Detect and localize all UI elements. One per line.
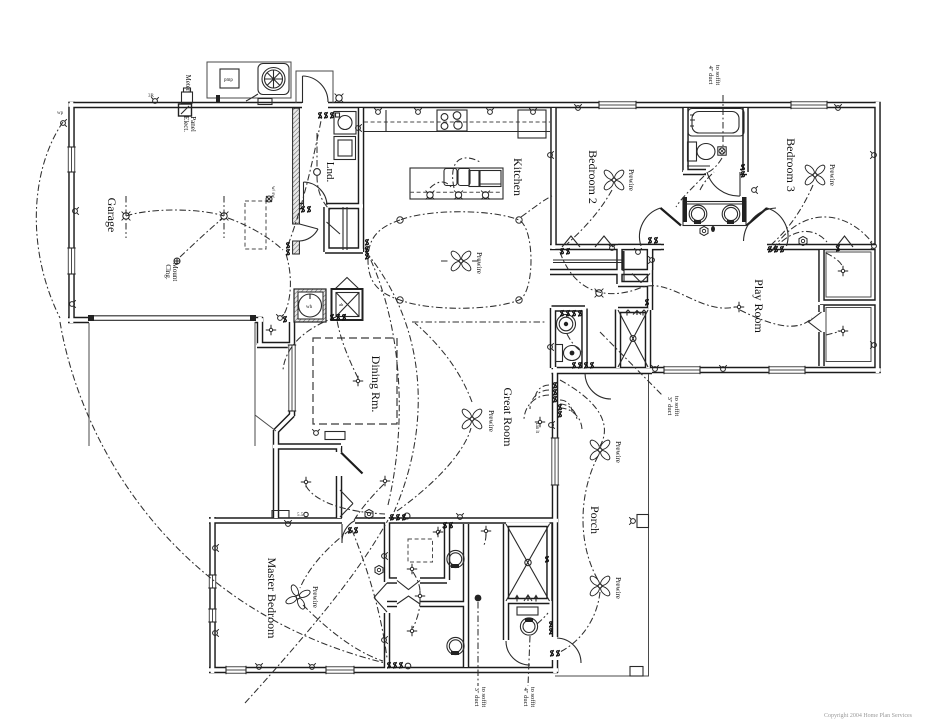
lower cell top right — [420, 601, 466, 608]
svg-text:Play Room: Play Room — [752, 279, 766, 333]
wire entry light to master sw — [353, 484, 384, 522]
laundry bottom right of door — [326, 203, 363, 210]
bedroom3 bottom wall — [767, 244, 820, 251]
wire garage to door switch — [228, 218, 283, 250]
svg-text:Prewire: Prewire — [828, 164, 836, 186]
playroom bottom wall — [553, 367, 881, 374]
porch/great wall upper — [552, 367, 559, 438]
condenser fan — [258, 64, 289, 95]
wire hall to playroom — [560, 252, 735, 308]
switches garage door — [286, 242, 289, 249]
washer — [334, 112, 356, 135]
recept right wall 2 — [870, 242, 876, 250]
light closet1 — [838, 266, 848, 276]
switches bedroom3 door — [768, 246, 771, 253]
wire entry to fan — [397, 428, 471, 511]
master top wall (left of door) — [209, 517, 342, 524]
wire bath2 up — [700, 172, 714, 190]
svg-text:w/ sw: w/ sw — [270, 186, 275, 198]
wire slider arcs — [524, 385, 549, 420]
foyer left wall — [273, 430, 280, 518]
wire foyer light — [306, 486, 385, 514]
linen bottom wall — [618, 281, 652, 288]
master/bath wall upper — [384, 517, 391, 582]
recept garage door — [276, 314, 284, 320]
hall door left jamb — [661, 208, 682, 226]
can light k2 — [516, 217, 522, 223]
garage hatched wall — [293, 108, 300, 224]
wire bedroom3 arc small — [772, 231, 827, 251]
closet2 door — [809, 312, 822, 332]
closet right stub — [647, 247, 654, 270]
shower door notch — [397, 581, 420, 590]
shower cell bottom right — [420, 577, 447, 584]
svg-text:Copyright 2004 Home Plan Servi: Copyright 2004 Home Plan Services — [824, 713, 913, 719]
wire powder arc — [567, 334, 584, 353]
dining area dashed outline — [313, 338, 397, 424]
switches kitchen west — [365, 239, 368, 246]
closet1 top wall — [820, 244, 877, 251]
porch outline — [555, 374, 649, 676]
wire island stars — [430, 158, 480, 188]
shower cell bottom stub — [387, 577, 397, 584]
svg-text:wp: wp — [57, 111, 64, 116]
recept bed2 closet — [634, 248, 642, 254]
svg-text:5.5: 5.5 — [297, 513, 304, 518]
can light k3 — [397, 297, 403, 303]
xcloset left wall — [615, 310, 622, 369]
wire master hall leader — [477, 602, 479, 686]
recept master bottom 1 — [255, 663, 263, 669]
wire exterior left lower — [60, 322, 385, 663]
xbox top wall (under main) — [506, 521, 550, 528]
hall mark — [711, 226, 715, 232]
garage light 1 — [122, 212, 131, 221]
svg-text:Master Bedroom: Master Bedroom — [265, 558, 279, 640]
switches bath2 — [741, 164, 744, 171]
wire master fan to bottom — [303, 605, 383, 661]
ceiling fan bedroom3 — [804, 164, 827, 187]
garage light 2 — [220, 212, 229, 221]
hall door right jamb — [747, 208, 768, 226]
step down right of garage door — [257, 317, 264, 345]
nook sink left — [689, 205, 707, 223]
light mbath lower — [407, 626, 417, 636]
svg-text:3" duct: 3" duct — [666, 397, 673, 416]
switches hall west — [560, 248, 563, 255]
smoke hall — [700, 226, 708, 235]
wire playroom right sweep — [740, 310, 812, 326]
recept right wall 1 — [870, 151, 876, 159]
lower cell top stub — [387, 601, 397, 608]
master bottom wall — [209, 667, 558, 674]
switches hall top — [560, 310, 563, 317]
linen xbox — [618, 310, 648, 367]
svg-text:Prewire: Prewire — [614, 577, 622, 599]
furnace — [335, 278, 359, 290]
kitchen/bedroom2 wall — [550, 108, 557, 249]
switches hallbath — [549, 621, 552, 628]
bath2 toilet — [688, 142, 697, 161]
powder right wall — [581, 309, 588, 369]
light mbath hall — [415, 591, 425, 601]
svg-text:Prewire: Prewire — [627, 169, 635, 191]
master sink2 — [447, 637, 464, 654]
porch door hallbath — [557, 638, 581, 663]
svg-text:Prewire: Prewire — [614, 441, 622, 463]
recept master top — [284, 520, 292, 526]
recept playroom bottom 2 — [651, 365, 659, 371]
hvac pad — [207, 62, 291, 98]
wire porch s2 — [583, 456, 598, 580]
switches back door — [318, 112, 321, 119]
master/bath wall lower — [384, 613, 391, 670]
dining west wall lower stub — [289, 409, 296, 416]
svg-text:wh: wh — [306, 305, 313, 310]
bedroom2 closet doors — [562, 236, 613, 247]
garage entry door — [300, 224, 319, 241]
smoke entry — [365, 509, 373, 518]
light playroom — [734, 302, 744, 312]
switches porch top — [558, 404, 561, 411]
svg-text:Meter: Meter — [184, 75, 192, 92]
svg-text:Dining Rm.: Dining Rm. — [369, 356, 383, 413]
recept powder — [548, 343, 554, 351]
powder sink — [557, 315, 576, 334]
recept greatroom bottom — [456, 513, 464, 519]
wire porch s3 — [560, 592, 600, 652]
switches master door — [348, 527, 351, 534]
bath2 left wall — [682, 108, 689, 172]
wire clng mount — [180, 219, 222, 257]
recept dining — [312, 429, 320, 435]
wire dining light — [337, 320, 358, 378]
wire garage light leg1 — [125, 196, 127, 238]
svg-text:ah: ah — [339, 302, 344, 307]
svg-text:Lnd.: Lnd. — [324, 162, 336, 183]
electrical panel — [179, 104, 192, 116]
svg-text:3" duct: 3" duct — [473, 688, 480, 707]
wire exterior left upper — [36, 122, 63, 318]
hall light — [595, 289, 604, 298]
svg-text:to soffit: to soffit — [714, 65, 721, 85]
island light 3 — [481, 191, 490, 200]
closet1 left wall — [818, 250, 825, 302]
back door — [302, 76, 304, 103]
wire garage switch to backdoor — [288, 116, 322, 245]
wire exterior bottom entry — [245, 520, 388, 703]
wire duct leader top — [722, 95, 724, 146]
xbox east wall — [546, 524, 553, 601]
light shower — [407, 564, 417, 574]
recept kitchen c3 — [486, 108, 494, 114]
top wall right of back door — [328, 102, 878, 109]
svg-text:Bedroom 2: Bedroom 2 — [586, 150, 600, 204]
bath2 vanity — [687, 165, 710, 167]
recept mbath wall1 — [382, 552, 388, 560]
ceiling mount outlet — [174, 258, 180, 264]
master left wall — [209, 517, 216, 673]
powder niche door — [585, 374, 611, 400]
linen left wall — [616, 247, 623, 284]
recept bed2 top — [574, 104, 582, 110]
master door — [342, 521, 355, 544]
foyer top wall — [273, 443, 341, 450]
wire master fan — [300, 530, 350, 588]
wire hallbath toilet — [537, 613, 548, 624]
switches mbath top — [443, 522, 446, 529]
recept top wall 1 — [151, 97, 159, 103]
powder toilet — [556, 345, 563, 362]
svg-text:4" duct: 4" duct — [707, 66, 714, 85]
top wall left of back door — [69, 102, 303, 109]
wire closet1 light — [826, 253, 843, 268]
svg-text:Prewire: Prewire — [487, 410, 495, 432]
master bath door — [374, 583, 387, 612]
heat pump unit — [220, 69, 239, 88]
cooktop — [437, 110, 467, 131]
svg-text:Porch: Porch — [588, 506, 602, 534]
wire dining from switch — [283, 317, 336, 370]
bath2 bottom left of door — [683, 169, 706, 176]
recept wp left — [61, 119, 67, 127]
kitchen counter — [364, 131, 550, 133]
vanity nook — [683, 202, 746, 226]
back stoop — [296, 71, 333, 103]
ceiling fan great room — [461, 408, 484, 431]
light foyer — [301, 477, 311, 487]
bath2 exhaust fan — [718, 147, 726, 155]
svg-text:fan lt: fan lt — [534, 423, 539, 434]
master top notch — [272, 511, 289, 519]
xcloset top — [618, 307, 648, 314]
switch closet1 — [836, 245, 839, 252]
recept hall wall — [648, 256, 654, 264]
garage bottom right jamb — [255, 317, 263, 324]
closet2 left upper stub — [818, 305, 825, 312]
closet divider wall — [820, 299, 877, 306]
shower cell east wall — [444, 524, 451, 580]
disconnect — [258, 99, 272, 105]
svg-text:Elect.: Elect. — [182, 116, 190, 132]
right wall — [874, 102, 881, 373]
foyer right wall top stub — [336, 446, 343, 452]
wire greatroom fan up — [415, 323, 472, 402]
foyer step — [255, 322, 276, 431]
wire bath2 run — [676, 158, 722, 207]
switches powder — [572, 362, 575, 369]
closet left wall — [323, 207, 330, 252]
wire greatroom big sweep — [366, 252, 418, 512]
dryer — [334, 137, 356, 160]
wire closet2 light — [826, 331, 840, 335]
hall bath toilet — [520, 618, 537, 635]
switches porch door — [550, 650, 553, 657]
master sink1 — [447, 550, 464, 567]
switches bedroom2 door — [648, 237, 651, 244]
recept master left 2 — [213, 629, 219, 637]
attic xbox — [506, 524, 550, 601]
wire kitchen switch to loop — [366, 248, 368, 256]
smoke master — [375, 565, 383, 574]
bath2 door — [707, 172, 740, 196]
light mbath1 — [433, 527, 443, 537]
svg-text:4" duct: 4" duct — [522, 688, 529, 707]
porch/great wall mid — [552, 485, 559, 637]
recept kitchen c1 — [374, 108, 382, 114]
master bottom junction — [405, 663, 411, 669]
svg-text:Great Room: Great Room — [501, 388, 515, 448]
svg-text:to soffit: to soffit — [529, 687, 536, 707]
wire bedroom3 arc big — [773, 217, 874, 249]
can light k4 — [516, 297, 522, 303]
ceiling fan kitchen — [450, 250, 473, 273]
master top wall (right of door) — [355, 517, 558, 524]
ceiling fan master — [283, 582, 312, 611]
hall/linen top wall — [618, 244, 661, 251]
attic access garage — [245, 201, 266, 249]
light entry — [380, 476, 390, 486]
closet bottom wall — [325, 247, 363, 254]
light mbath2 — [481, 526, 491, 536]
hall bath sink — [517, 607, 538, 615]
svg-text:Prewire: Prewire — [311, 586, 319, 608]
wire duct leader mid — [600, 332, 663, 396]
can light k1 — [397, 217, 403, 223]
recept bed2 left — [548, 151, 554, 159]
recept left lower — [70, 300, 76, 308]
wire porch top arcs — [560, 400, 582, 430]
svg-text:3R: 3R — [148, 94, 155, 99]
laundry bottom left stub — [296, 203, 303, 210]
dining buffet — [325, 432, 345, 440]
wire kitchen can to switch — [521, 196, 552, 217]
ceiling fan porch south — [589, 575, 612, 598]
switches master bottom — [387, 662, 390, 669]
wire masterbath lights — [413, 525, 486, 628]
windows — [599, 101, 636, 109]
garage door — [90, 315, 252, 317]
switch mbath lower — [545, 556, 548, 563]
garage keyless — [266, 196, 272, 202]
kitchen island — [410, 168, 503, 199]
svg-text:pmp: pmp — [224, 78, 233, 83]
garage bottom left jamb — [68, 317, 89, 324]
closet2 left lower — [818, 332, 825, 366]
svg-text:Mount: Mount — [171, 263, 179, 282]
recept playroom right2 — [870, 341, 876, 349]
bath2 tub — [688, 109, 744, 137]
bedroom2 bottom wall — [550, 244, 664, 251]
svg-text:Prewire: Prewire — [475, 252, 483, 274]
xbox bottom wall — [506, 598, 550, 605]
thermostat laundry — [314, 169, 321, 176]
island light 2 — [454, 191, 463, 200]
recept master left 1 — [213, 544, 219, 552]
light nook — [535, 417, 545, 427]
nook sink right — [722, 205, 740, 223]
svg-text:Panel: Panel — [189, 116, 197, 132]
powder top wall — [552, 305, 586, 312]
switches wh — [330, 314, 333, 321]
closet1 door — [836, 236, 853, 247]
recept greatroom slider — [549, 421, 555, 429]
recept bed3 top — [834, 104, 842, 110]
switches entry — [390, 514, 393, 521]
ceiling fan porch north — [589, 439, 612, 462]
angled wall — [276, 415, 293, 432]
entry door — [341, 453, 363, 474]
refrigerator — [518, 110, 546, 138]
wire bedroom2 fan — [566, 190, 612, 245]
wire garage switch down — [283, 254, 290, 316]
svg-text:Kitchen: Kitchen — [511, 158, 525, 196]
vanity wall — [463, 524, 470, 667]
recept garage left — [73, 207, 79, 215]
recept kitchen c2 — [414, 108, 422, 114]
ceiling fan bedroom2 — [603, 169, 626, 192]
wire garage light leg2 — [223, 196, 225, 238]
switches slider — [553, 382, 556, 389]
recept mbath wall2 — [382, 636, 388, 644]
bedroom2 closet bottom — [550, 269, 650, 276]
xcloset right wall — [645, 310, 652, 369]
recept kitchen c4 — [529, 108, 537, 114]
xbox/hallbath west wall — [503, 524, 510, 640]
garage left wall — [68, 102, 75, 323]
svg-text:to soffit: to soffit — [480, 687, 487, 707]
switches laundry — [301, 206, 304, 213]
light stoop — [266, 325, 276, 335]
floor outlet master hall — [475, 595, 482, 602]
switches dining — [336, 314, 339, 321]
wire kitchen fan legs — [441, 260, 481, 262]
step across to WH closet — [257, 342, 294, 349]
island light 1 — [426, 191, 435, 200]
dining west wall upper stub — [289, 322, 296, 347]
driveway apron — [88, 323, 90, 446]
recept bed3 left — [752, 186, 758, 194]
porch/great wall lower stub — [552, 660, 559, 673]
powder left wall — [550, 308, 557, 368]
lower cell door — [397, 596, 420, 604]
svg-text:Bedroom 3: Bedroom 3 — [784, 138, 798, 192]
wire greatroom sweep2 — [365, 248, 399, 505]
recept master bottom 2 — [308, 663, 316, 669]
wire kitchen loop — [368, 212, 531, 309]
laundry door — [304, 182, 328, 206]
back door light — [335, 94, 344, 103]
wire greatroom line — [412, 321, 547, 323]
wire bedroom3 fan — [771, 185, 813, 245]
wall hollow cores (white inner fill of double-line walls) — [69, 103, 303, 107]
island sink — [444, 169, 457, 186]
foyer right wall lower — [336, 476, 343, 518]
closet shelves kitchen — [342, 207, 344, 250]
light closet2 — [838, 326, 848, 336]
hall bath door — [506, 641, 530, 665]
svg-text:Clng.: Clng. — [164, 264, 172, 280]
recept hall — [608, 244, 616, 250]
wire garage lights run — [126, 210, 224, 216]
laundry/kitchen wall — [358, 108, 365, 252]
bedroom3 door — [744, 208, 777, 241]
linen closet — [623, 251, 625, 281]
switch garage opener — [283, 316, 286, 323]
wire porch s1 — [560, 380, 604, 446]
playroom west wall — [647, 247, 654, 310]
bath2 bottom right of door — [740, 169, 747, 176]
